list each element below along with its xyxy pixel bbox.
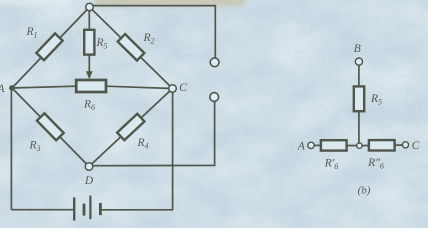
wire battery to node C (right side of loop)	[102, 89, 173, 210]
wire R5 to junction (b)	[358, 112, 360, 144]
wire node D to node C	[89, 89, 173, 167]
wire top node to terminal 1	[90, 6, 216, 58]
battery	[74, 196, 100, 221]
resistor R1	[36, 33, 62, 60]
resistor R6 (slide-wire)	[76, 80, 106, 92]
svg-text:(b): (b)	[358, 185, 371, 197]
wire node A to R6	[12, 86, 77, 88]
terminal A (b)	[308, 142, 314, 148]
svg-text:B: B	[354, 43, 361, 55]
wire node A down to battery	[10, 88, 12, 210]
wiper arrow from R5 to R6	[86, 55, 93, 80]
resistor R'6	[321, 140, 347, 150]
wire node A to node D	[12, 88, 89, 167]
junction node (b)	[357, 143, 362, 148]
node A	[9, 85, 15, 91]
wire B to R5 (b)	[358, 65, 360, 87]
node C	[169, 85, 177, 93]
wire terminal 2 to node D	[93, 101, 215, 165]
resistor R3	[37, 113, 64, 140]
wire top node to node A	[12, 7, 90, 88]
wire battery left lead	[11, 209, 73, 211]
terminal C (b)	[402, 142, 408, 148]
resistor R5 (b)	[354, 86, 364, 111]
wire top node to R5	[88, 7, 90, 30]
svg-text:D: D	[84, 175, 94, 187]
wire terminal A to R'6	[314, 144, 321, 146]
resistor R5	[84, 30, 94, 55]
wire R'6 to junction	[347, 145, 357, 147]
svg-text:C: C	[179, 82, 187, 94]
svg-text:C: C	[412, 140, 420, 152]
wire junction to R''6	[362, 145, 369, 147]
node top (junction of R1 R2 R5)	[86, 3, 94, 11]
terminal B (b)	[355, 58, 362, 65]
resistor R4	[117, 114, 144, 140]
wire R''6 to terminal C	[395, 144, 403, 146]
terminal 2	[210, 93, 219, 102]
node D	[85, 163, 93, 171]
wire top node to node C	[90, 7, 173, 89]
svg-text:A: A	[297, 141, 306, 153]
terminal 1	[210, 58, 219, 67]
wire R6 to node C	[106, 86, 173, 88]
resistor R''6	[369, 140, 395, 150]
resistor R2	[118, 34, 145, 60]
